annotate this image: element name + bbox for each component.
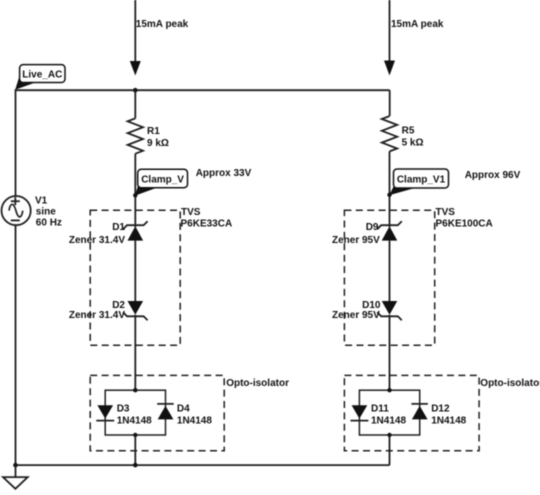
svg-text:Clamp_V1: Clamp_V1 bbox=[397, 174, 446, 185]
current arrow left branch bbox=[130, 61, 141, 76]
diode D12 bbox=[411, 404, 428, 420]
svg-text:R5: R5 bbox=[402, 126, 415, 137]
wire opto left to bottom rail bbox=[134, 435, 136, 465]
zener diode D9 bbox=[377, 221, 402, 240]
TVS box right bbox=[344, 210, 434, 345]
wire R1 top lead bbox=[134, 90, 136, 118]
wire D9 to D10 bbox=[389, 241, 391, 301]
node Clamp_V dot bbox=[133, 193, 137, 197]
svg-text:sine: sine bbox=[36, 207, 56, 218]
svg-text:Zener 31.4V: Zener 31.4V bbox=[69, 310, 125, 321]
TVS box left bbox=[90, 210, 180, 345]
svg-text:Zener 95V: Zener 95V bbox=[332, 310, 380, 321]
wire top rail Live_AC bbox=[16, 90, 390, 196]
svg-text:5 kΩ: 5 kΩ bbox=[402, 138, 424, 149]
diode D3 bbox=[96, 405, 114, 420]
svg-text:R1: R1 bbox=[147, 126, 160, 137]
node dot opto bottom left bbox=[133, 433, 137, 437]
svg-text:TVS: TVS bbox=[181, 207, 201, 218]
node dot opto top left bbox=[133, 388, 137, 392]
node dot opto bottom right bbox=[387, 433, 391, 437]
node junction dot left branch top bbox=[133, 88, 138, 93]
zener diode D1 bbox=[123, 221, 148, 240]
svg-text:Clamp_V: Clamp_V bbox=[141, 174, 184, 185]
svg-text:D11: D11 bbox=[371, 404, 389, 415]
svg-text:P6KE100CA: P6KE100CA bbox=[436, 219, 493, 230]
svg-text:D4: D4 bbox=[177, 404, 190, 415]
opto box left bbox=[90, 375, 224, 450]
resistor R1 bbox=[128, 118, 143, 153]
svg-text:15mA peak: 15mA peak bbox=[136, 19, 189, 30]
node junction dot bottom left branch bbox=[133, 463, 138, 468]
opto box right bbox=[344, 375, 479, 450]
wire R5 to D9 bbox=[389, 151, 391, 227]
opto bridge rect right bbox=[359, 390, 419, 435]
wire D10 to opto right bbox=[389, 315, 391, 390]
svg-text:D1: D1 bbox=[112, 222, 125, 233]
svg-text:D3: D3 bbox=[117, 404, 130, 415]
svg-text:9 kΩ: 9 kΩ bbox=[147, 138, 169, 149]
wire D1 to D2 bbox=[134, 241, 136, 301]
node junction dot ground bbox=[13, 463, 18, 468]
wire R5 top lead bbox=[389, 90, 391, 116]
svg-text:60 Hz: 60 Hz bbox=[36, 218, 62, 229]
svg-text:Zener 95V: Zener 95V bbox=[332, 235, 380, 246]
ground bbox=[3, 477, 28, 489]
svg-text:Approx 33V: Approx 33V bbox=[196, 168, 252, 179]
wire top feed left branch bbox=[134, 0, 136, 61]
opto bridge rect left bbox=[105, 390, 165, 435]
zener diode D2 bbox=[123, 301, 148, 320]
node dot opto top right bbox=[387, 388, 391, 392]
node label Live_AC bbox=[15, 65, 65, 90]
diode D11 bbox=[351, 405, 369, 420]
wire bottom rail bbox=[16, 464, 390, 466]
svg-text:Zener 31.4V: Zener 31.4V bbox=[69, 235, 125, 246]
node label Clamp_V bbox=[135, 169, 188, 196]
svg-text:15mA peak: 15mA peak bbox=[391, 19, 444, 30]
svg-text:TVS: TVS bbox=[436, 207, 456, 218]
wire left rail lower bbox=[15, 225, 17, 465]
svg-text:1N4148: 1N4148 bbox=[177, 415, 212, 426]
svg-text:D9: D9 bbox=[366, 222, 379, 233]
svg-text:Opto-isolator: Opto-isolator bbox=[226, 378, 289, 389]
node Clamp_V1 dot bbox=[387, 193, 391, 197]
wire top feed right branch bbox=[389, 0, 391, 61]
wire ground stub bbox=[15, 465, 17, 477]
diode D4 bbox=[157, 404, 174, 420]
svg-text:Opto-isolator: Opto-isolator bbox=[480, 378, 540, 389]
wire D2 to opto left bbox=[134, 315, 136, 390]
svg-text:Live_AC: Live_AC bbox=[22, 70, 62, 81]
node label Clamp_V1 bbox=[389, 169, 448, 195]
source V1 bbox=[2, 196, 31, 225]
svg-text:D12: D12 bbox=[431, 404, 450, 415]
svg-text:1N4148: 1N4148 bbox=[371, 415, 406, 426]
zener diode D10 bbox=[377, 301, 402, 320]
wire R1 to D1 bbox=[134, 154, 136, 227]
svg-text:V1: V1 bbox=[35, 196, 48, 207]
wire opto right to bottom rail bbox=[389, 435, 391, 465]
svg-text:Approx 96V: Approx 96V bbox=[465, 170, 521, 181]
svg-text:1N4148: 1N4148 bbox=[117, 415, 152, 426]
current arrow right branch bbox=[384, 61, 395, 76]
svg-text:P6KE33CA: P6KE33CA bbox=[181, 219, 233, 230]
resistor R5 bbox=[382, 116, 397, 151]
svg-text:1N4148: 1N4148 bbox=[431, 415, 466, 426]
